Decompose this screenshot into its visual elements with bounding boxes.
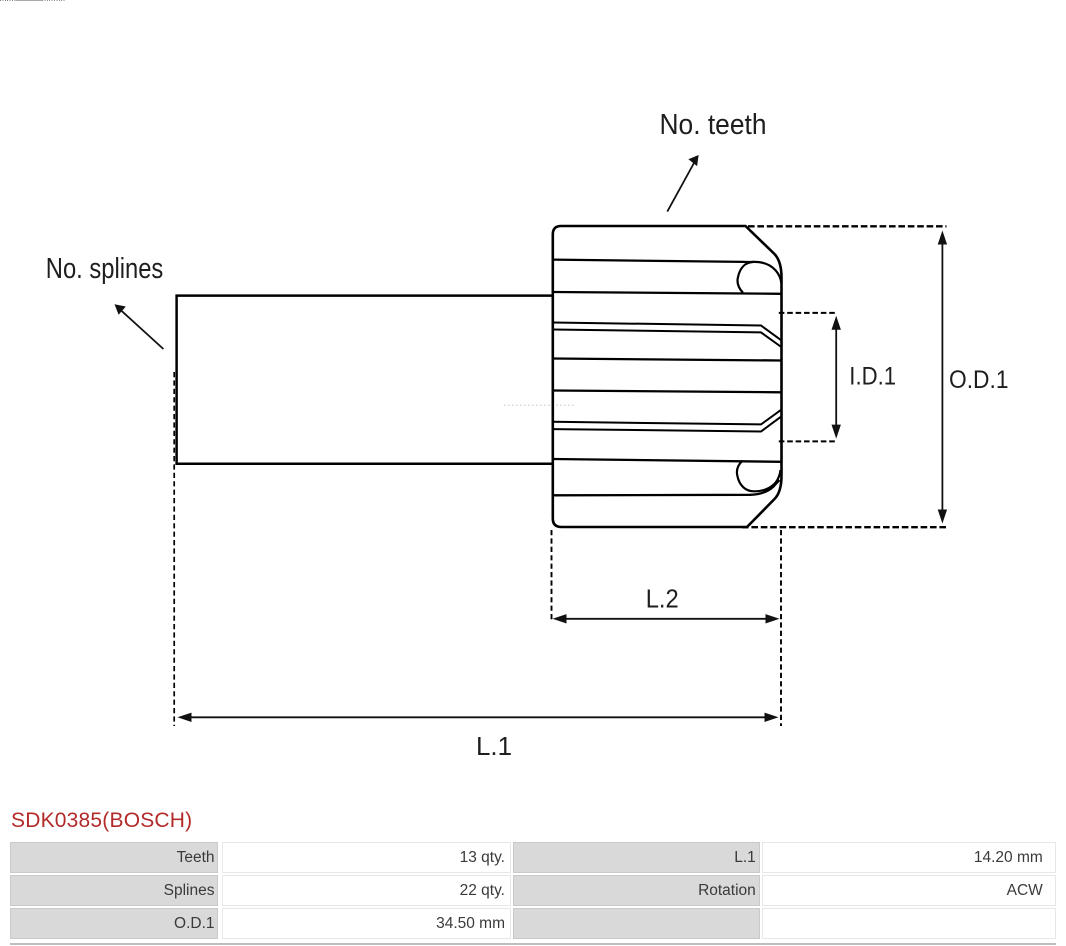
svg-text:I.D.1: I.D.1	[849, 363, 896, 391]
O.D.1 dimension arrow	[941, 240, 943, 514]
No. teeth arrow	[667, 163, 694, 212]
tooth line 3	[553, 292, 782, 294]
tooth line 6	[553, 459, 782, 462]
O.D.1 top dashed extension	[748, 225, 947, 227]
svg-text:No. splines: No. splines	[46, 253, 164, 285]
L.2 / L.1 right dashed extension	[780, 530, 782, 726]
shaft hidden-edge dashed extension (L.1 left)	[173, 372, 175, 726]
tooth line 2	[553, 260, 754, 262]
table bottom separator (next row top border)	[10, 943, 1056, 945]
L.2 left dashed extension	[551, 530, 553, 622]
tooth end dome top-right	[737, 262, 781, 293]
L.2 dimension arrow	[564, 618, 768, 620]
spline groove band 2 (bends up at right)	[553, 410, 782, 425]
centerline	[504, 404, 575, 406]
svg-text:O.D.1: O.D.1	[949, 366, 1009, 394]
tooth line 5	[553, 391, 782, 393]
I.D.1 bottom dashed extension	[779, 440, 838, 442]
svg-text:L.1: L.1	[476, 731, 512, 761]
O.D.1 bottom dashed extension	[742, 526, 947, 528]
tooth line 7	[553, 480, 780, 495]
No. splines arrow	[120, 309, 164, 349]
I.D.1 top dashed extension	[779, 312, 838, 314]
shaft	[177, 296, 553, 464]
spline groove band 1 (bends down at right)	[553, 323, 782, 341]
top edge artifact strip	[0, 0, 16, 1]
svg-text:L.2: L.2	[646, 584, 679, 614]
tooth end dome bottom-right	[737, 461, 781, 492]
spec table row 3	[10, 908, 218, 939]
svg-text:No. teeth: No. teeth	[660, 109, 767, 141]
gear outline	[553, 226, 782, 527]
spec table row 1	[10, 842, 218, 873]
product code heading	[11, 809, 192, 833]
I.D.1 dimension arrow	[835, 327, 837, 428]
tooth line 4	[553, 359, 782, 361]
L.1 dimension arrow	[189, 716, 767, 718]
spec table row 2	[10, 875, 218, 906]
